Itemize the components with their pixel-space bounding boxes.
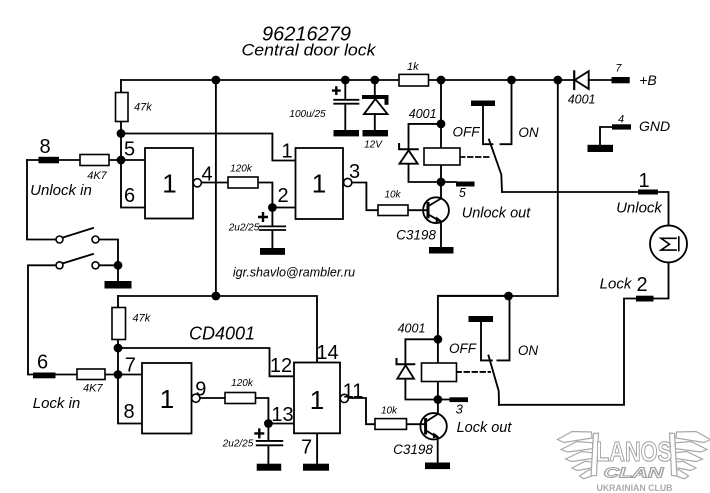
svg-text:C3198: C3198 (393, 442, 433, 457)
svg-text:4001: 4001 (398, 322, 426, 336)
svg-text:ON: ON (518, 125, 539, 140)
svg-text:ON: ON (518, 343, 539, 358)
svg-text:4: 4 (618, 114, 624, 126)
svg-text:Unlock in: Unlock in (30, 182, 92, 199)
svg-text:2: 2 (277, 185, 288, 207)
svg-text:4001: 4001 (568, 93, 596, 107)
svg-text:12V: 12V (364, 140, 383, 151)
svg-text:3: 3 (349, 161, 360, 183)
svg-text:CD4001: CD4001 (189, 324, 255, 344)
svg-text:1: 1 (312, 169, 326, 199)
svg-text:OFF: OFF (449, 341, 477, 356)
svg-text:5: 5 (459, 186, 466, 200)
svg-text:Lock: Lock (600, 276, 633, 293)
svg-text:+B: +B (639, 72, 657, 88)
svg-text:Lock out: Lock out (457, 420, 513, 436)
svg-text:120k: 120k (231, 378, 254, 389)
svg-text:13: 13 (271, 404, 293, 426)
svg-text:1: 1 (281, 141, 292, 163)
svg-text:4: 4 (201, 164, 212, 186)
svg-text:47k: 47k (134, 102, 152, 114)
svg-text:3: 3 (456, 401, 464, 416)
svg-text:8: 8 (39, 136, 50, 158)
svg-text:120k: 120k (230, 164, 253, 175)
svg-text:1k: 1k (407, 61, 419, 73)
svg-text:100u/25: 100u/25 (289, 109, 326, 120)
svg-text:GND: GND (639, 118, 670, 134)
svg-text:LANOS: LANOS (596, 436, 672, 467)
svg-text:6: 6 (124, 185, 135, 207)
svg-text:2u2/25: 2u2/25 (222, 439, 254, 450)
svg-text:6: 6 (37, 352, 48, 374)
svg-text:2u2/25: 2u2/25 (228, 223, 260, 234)
svg-text:10k: 10k (381, 406, 398, 417)
svg-text:Unlock out: Unlock out (462, 206, 531, 222)
svg-text:14: 14 (316, 342, 338, 364)
svg-text:1: 1 (638, 170, 649, 192)
svg-text:CLAN: CLAN (604, 465, 666, 482)
svg-text:5: 5 (124, 139, 135, 161)
svg-text:2: 2 (636, 274, 647, 296)
svg-text:Unlock: Unlock (616, 200, 663, 217)
svg-text:10k: 10k (384, 190, 401, 201)
svg-text:igr.shavlo@rambler.ru: igr.shavlo@rambler.ru (233, 266, 355, 280)
svg-text:UKRAINIAN CLUB: UKRAINIAN CLUB (597, 483, 673, 493)
svg-text:4K7: 4K7 (83, 383, 103, 395)
svg-text:C3198: C3198 (396, 228, 436, 243)
svg-text:7: 7 (301, 437, 312, 459)
svg-text:1: 1 (162, 169, 176, 199)
svg-text:4001: 4001 (409, 107, 437, 121)
svg-text:Central door lock: Central door lock (242, 41, 378, 60)
svg-text:OFF: OFF (453, 125, 481, 140)
svg-text:7: 7 (615, 63, 622, 75)
svg-text:4K7: 4K7 (87, 170, 107, 182)
svg-text:7: 7 (125, 355, 136, 377)
svg-text:47k: 47k (133, 313, 151, 325)
svg-text:9: 9 (195, 379, 206, 401)
svg-text:1: 1 (160, 384, 174, 414)
svg-text:1: 1 (310, 385, 324, 415)
svg-text:Lock in: Lock in (33, 395, 81, 412)
svg-text:8: 8 (123, 401, 134, 423)
svg-text:11: 11 (343, 381, 364, 403)
svg-text:12: 12 (270, 355, 292, 377)
